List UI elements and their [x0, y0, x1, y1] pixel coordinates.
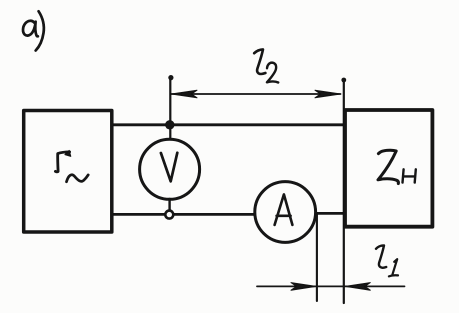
letter A	[275, 194, 293, 225]
tilde subscript of Г	[67, 175, 89, 182]
label Г	[55, 150, 70, 171]
label Z	[378, 150, 398, 183]
extension line right (l2/l1)	[343, 79, 345, 303]
voltmeter circle V	[140, 139, 200, 199]
label н subscript	[403, 169, 416, 182]
load box	[345, 110, 432, 227]
arrow l1 left (points right)	[291, 283, 316, 291]
arrow l2 left	[172, 90, 198, 98]
top wire	[113, 123, 344, 126]
bottom wire (generator to ammeter)	[113, 213, 255, 216]
label l1	[376, 245, 398, 276]
label l2	[254, 49, 278, 82]
arrow l1 right (points left)	[345, 283, 370, 291]
dimension line l1	[257, 285, 405, 287]
voltmeter bottom open terminal	[165, 211, 173, 219]
extension line l1 left	[316, 214, 318, 301]
dimension line l2	[171, 93, 341, 95]
extension line l2 left / voltmeter feed	[169, 77, 171, 140]
letter V	[161, 153, 177, 182]
voltmeter bottom stub	[168, 199, 170, 211]
generator box	[24, 111, 112, 233]
junction dot on top wire	[165, 120, 174, 129]
arrow l2 right	[315, 90, 341, 98]
tick dot top of right extension	[341, 78, 346, 83]
bottom wire (ammeter to load)	[316, 212, 344, 215]
tick dot top of left extension	[168, 75, 173, 80]
label a)	[23, 11, 44, 50]
ammeter circle A	[255, 182, 316, 243]
